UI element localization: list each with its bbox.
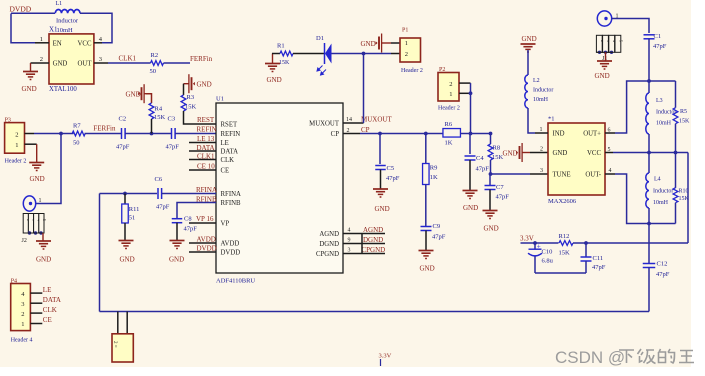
svg-text:CLK1: CLK1 xyxy=(119,55,137,63)
node TUNE junction xyxy=(489,172,493,176)
wire D1 to P1 xyxy=(332,53,392,55)
svg-text:CE: CE xyxy=(221,168,230,175)
svg-text:47pF: 47pF xyxy=(386,175,400,182)
node C11 junction xyxy=(584,241,588,245)
svg-text:OUT: OUT xyxy=(78,61,93,68)
svg-text:CPGND: CPGND xyxy=(362,246,386,254)
svg-text:1: 1 xyxy=(540,127,543,133)
svg-text:C2: C2 xyxy=(119,116,127,123)
pin 3 X1.OUT xyxy=(94,62,108,64)
svg-text:47pF: 47pF xyxy=(496,194,510,201)
node C10 junction xyxy=(533,241,537,245)
svg-text:47pF: 47pF xyxy=(592,264,606,271)
svg-text:CE: CE xyxy=(43,316,52,324)
pin 4 X1.VCC xyxy=(94,42,102,44)
svg-text:VP: VP xyxy=(221,221,230,228)
resistor R10 xyxy=(675,153,677,188)
svg-text:4: 4 xyxy=(348,228,351,234)
svg-text:Inductor: Inductor xyxy=(533,88,553,94)
svg-text:1: 1 xyxy=(40,36,43,43)
svg-text:MUXOUT: MUXOUT xyxy=(309,121,340,128)
svg-text:3: 3 xyxy=(540,168,543,174)
svg-text:L4: L4 xyxy=(654,177,661,183)
svg-text:Header 2: Header 2 xyxy=(5,158,27,164)
svg-text:4: 4 xyxy=(609,168,612,174)
svg-text:C5: C5 xyxy=(387,165,395,172)
pin 1 P4 / net CE xyxy=(30,323,42,325)
wire R8 drop xyxy=(490,134,492,145)
connector P1 body xyxy=(400,38,421,62)
resistor R8 xyxy=(488,144,493,160)
svg-text:OUT+: OUT+ xyxy=(583,131,601,138)
svg-text:CE 10: CE 10 xyxy=(197,162,215,170)
svg-text:DGND: DGND xyxy=(363,236,383,244)
svg-text:GND: GND xyxy=(420,265,435,273)
svg-text:R12: R12 xyxy=(559,233,570,240)
svg-text:C9: C9 xyxy=(433,223,441,230)
wire C8 to ground xyxy=(176,223,178,241)
wire C6 to RFINB pin wait RFINA pin xyxy=(162,193,216,195)
pin DVDD stub xyxy=(189,251,216,253)
ground C8 xyxy=(170,240,185,242)
svg-text:GND: GND xyxy=(30,175,45,183)
wire J2 riser xyxy=(36,134,62,204)
svg-text:50: 50 xyxy=(73,140,80,147)
pin 2 P1 xyxy=(391,53,400,55)
wire VCC net xyxy=(613,152,688,154)
svg-text:15K: 15K xyxy=(279,60,290,66)
wire R7 to C2 xyxy=(85,133,122,135)
svg-text:1K: 1K xyxy=(430,174,438,181)
svg-text:P1: P1 xyxy=(402,28,408,34)
wire DVDD loop top right xyxy=(80,13,112,43)
wire C7 to ground xyxy=(489,190,491,211)
resistor R1 xyxy=(280,51,293,56)
svg-text:REFIN: REFIN xyxy=(197,126,217,134)
svg-text:3.3V: 3.3V xyxy=(379,353,392,360)
pin CP stub xyxy=(343,133,360,135)
svg-text:C7: C7 xyxy=(496,184,504,191)
svg-text:R10: R10 xyxy=(679,189,689,195)
wire OUT+ net xyxy=(615,81,676,133)
wire C1 down xyxy=(648,39,650,81)
capacitor C11 xyxy=(585,243,587,257)
wire gnd to L2 xyxy=(527,50,529,75)
wire 3.3V rail xyxy=(521,242,559,244)
wire MUXOUT riser xyxy=(363,54,365,124)
wire VCC down right side xyxy=(687,153,689,244)
capacitor C12 xyxy=(643,263,656,265)
capacitor C4 xyxy=(465,155,476,157)
capacitor C3 xyxy=(171,128,173,139)
svg-text:3.3V: 3.3V xyxy=(520,235,534,243)
resistor R4 xyxy=(149,103,154,119)
wire OUT- net xyxy=(615,174,676,224)
svg-text:DATA: DATA xyxy=(43,296,61,304)
inductor L2 xyxy=(525,75,528,108)
pin 1 P2 xyxy=(459,92,471,94)
svg-text:AGND: AGND xyxy=(319,231,339,238)
wire AGND bracket xyxy=(361,234,363,254)
svg-text:Header 4: Header 4 xyxy=(11,338,33,344)
pin 1 P1 xyxy=(391,42,400,44)
wire gnd port to R4 xyxy=(146,94,152,103)
wire C9 to ground xyxy=(425,231,427,251)
wire R12 to VCC riser xyxy=(573,242,688,244)
inductor L4 xyxy=(648,153,650,174)
svg-text:47pF: 47pF xyxy=(156,204,170,211)
svg-text:47pF: 47pF xyxy=(166,144,180,151)
svg-text:50: 50 xyxy=(150,68,157,75)
svg-text:R2: R2 xyxy=(151,52,159,59)
resistor R12 xyxy=(559,241,573,246)
wire R2 to FERFin xyxy=(164,62,191,64)
ground X1 xyxy=(30,63,32,72)
svg-text:RFINB: RFINB xyxy=(221,200,241,207)
svg-text:R9: R9 xyxy=(430,165,438,172)
capacitor C5 xyxy=(375,165,386,167)
svg-text:TUNE: TUNE xyxy=(553,172,571,179)
svg-text:GND: GND xyxy=(595,72,610,80)
svg-text:LE: LE xyxy=(43,286,52,294)
wire R1 to D1 xyxy=(293,53,325,55)
node R8 top junction xyxy=(489,132,493,136)
connector J2 shield boxes xyxy=(23,214,28,234)
pin 1 U2 stub xyxy=(535,132,548,134)
ground C4 xyxy=(463,190,478,192)
svg-text:6.8u: 6.8u xyxy=(542,258,554,265)
wire C3 to REFIN pin xyxy=(175,133,216,135)
svg-text:2: 2 xyxy=(449,81,452,88)
pin 2 U2 stub xyxy=(530,152,548,154)
pin 4 P4 / net LE xyxy=(30,292,42,294)
connector J1 shield boxes xyxy=(596,35,602,52)
svg-text:2: 2 xyxy=(540,147,543,153)
svg-text:GND: GND xyxy=(484,225,499,233)
svg-text:VP 16: VP 16 xyxy=(196,215,214,223)
wire R9 drop xyxy=(425,134,427,164)
svg-text:VCC: VCC xyxy=(78,40,92,47)
svg-text:9: 9 xyxy=(348,238,351,244)
svg-text:Header 2: Header 2 xyxy=(438,106,460,112)
pin 1 X1.EN xyxy=(35,42,49,44)
svg-text:DVDD: DVDD xyxy=(197,245,217,253)
svg-text:15K: 15K xyxy=(679,119,690,125)
svg-text:C10: C10 xyxy=(542,249,553,256)
svg-text:C6: C6 xyxy=(155,176,163,183)
wire P3 to R7 xyxy=(34,133,74,135)
svg-text:LE 13: LE 13 xyxy=(197,135,215,143)
svg-text:R4: R4 xyxy=(155,106,163,113)
svg-text:C1: C1 xyxy=(654,33,662,40)
wire C12 to bottom bus xyxy=(648,268,650,312)
connector J2 circle xyxy=(23,196,35,211)
svg-text:1: 1 xyxy=(405,40,408,47)
svg-text:OUT-: OUT- xyxy=(585,172,601,179)
capacitor C8 xyxy=(172,218,183,220)
wire R6 to junction xyxy=(461,133,491,135)
pin CE stub xyxy=(189,169,216,171)
node R6 junction xyxy=(469,132,473,136)
svg-text:2: 2 xyxy=(347,128,350,134)
svg-text:15K: 15K xyxy=(154,114,166,121)
node J1 shield junctions xyxy=(598,51,601,54)
pin CPGND stub xyxy=(343,253,385,255)
svg-text:CSDN @: CSDN @ xyxy=(555,348,625,367)
ground C7 xyxy=(483,210,498,212)
svg-text:3: 3 xyxy=(21,301,24,308)
svg-text:MUXOUT: MUXOUT xyxy=(361,116,392,124)
pin 1 P3 xyxy=(25,143,37,145)
svg-text:1: 1 xyxy=(39,198,42,204)
svg-text:VCC: VCC xyxy=(587,150,601,157)
svg-text:1: 1 xyxy=(21,321,24,328)
resistor R2 xyxy=(151,61,164,66)
svg-text:GND: GND xyxy=(463,204,478,212)
svg-text:REFIN: REFIN xyxy=(221,131,241,138)
svg-text:CLK: CLK xyxy=(43,306,57,314)
ground J2 xyxy=(42,233,44,241)
wire C2 to C3 xyxy=(125,133,171,135)
node L4 C12 junction xyxy=(647,222,651,226)
wire RFINA riser to bottom bus xyxy=(99,194,101,312)
svg-text:3: 3 xyxy=(99,56,102,63)
svg-text:DATA: DATA xyxy=(221,149,239,156)
wire C10 C11 bottom link xyxy=(535,272,586,274)
pin 5 U2 stub xyxy=(605,152,613,154)
svg-text:5: 5 xyxy=(42,219,46,221)
capacitor C10 electrolytic xyxy=(534,243,536,249)
wire R11 drop xyxy=(124,194,126,205)
svg-text:DATA: DATA xyxy=(197,144,215,152)
svg-text:1: 1 xyxy=(449,91,452,98)
wire R4 to line xyxy=(151,119,153,134)
svg-text:L2: L2 xyxy=(533,78,540,84)
svg-text:GND: GND xyxy=(503,150,518,158)
svg-text:ADF4110BRU: ADF4110BRU xyxy=(216,278,255,285)
svg-text:GND: GND xyxy=(53,61,68,68)
svg-text:47pF: 47pF xyxy=(184,226,198,233)
svg-text:DVDD: DVDD xyxy=(221,250,241,257)
svg-text:Inductor: Inductor xyxy=(653,189,673,195)
wire C5 drop xyxy=(379,134,381,165)
wire DVDD loop top left xyxy=(11,12,55,14)
node C5 junction xyxy=(378,132,382,136)
svg-text:2: 2 xyxy=(40,56,43,63)
svg-text:2 =: 2 = xyxy=(112,341,117,348)
resistor R11 xyxy=(122,204,129,223)
svg-text:C3: C3 xyxy=(168,116,176,123)
svg-text:IND: IND xyxy=(553,131,565,138)
svg-text:GND: GND xyxy=(120,256,135,264)
node R4 junction xyxy=(150,132,154,136)
capacitor C9 xyxy=(421,226,432,228)
crystal Y1 body xyxy=(112,334,133,362)
svg-text:R11: R11 xyxy=(129,206,140,213)
wire TUNE xyxy=(491,173,531,175)
svg-text:R3: R3 xyxy=(187,94,195,101)
svg-text:R1: R1 xyxy=(277,43,285,50)
connector P2 body xyxy=(438,73,459,102)
svg-text:GND: GND xyxy=(22,85,37,93)
pin DGND stub xyxy=(343,243,385,245)
capacitor C6 xyxy=(157,188,159,199)
svg-text:3: 3 xyxy=(348,248,351,254)
svg-text:47pF: 47pF xyxy=(116,144,130,151)
svg-text:GND: GND xyxy=(375,205,390,213)
ground C9 xyxy=(419,250,434,252)
svg-text:2: 2 xyxy=(21,311,24,318)
wire RFINA left segment xyxy=(100,193,158,195)
svg-text:GND: GND xyxy=(197,81,212,89)
gnd port near R3 xyxy=(184,83,189,85)
wire CLK1 net xyxy=(108,62,151,64)
svg-text:C4: C4 xyxy=(476,155,484,162)
capacitor C7 xyxy=(485,185,496,187)
svg-text:RFINA: RFINA xyxy=(221,191,241,198)
svg-text:MAX2606: MAX2606 xyxy=(548,198,577,205)
svg-text:15K: 15K xyxy=(185,104,197,111)
svg-text:2: 2 xyxy=(405,51,408,58)
wire bottom bus xyxy=(100,311,650,313)
svg-text:Header 2: Header 2 xyxy=(401,68,423,74)
pin LE stub xyxy=(189,142,216,144)
svg-text:LE: LE xyxy=(221,140,229,147)
svg-text:47pF: 47pF xyxy=(476,166,490,173)
svg-text:15K: 15K xyxy=(679,196,690,202)
svg-text:L3: L3 xyxy=(656,98,663,104)
svg-text:C11: C11 xyxy=(593,255,604,262)
svg-text:GND: GND xyxy=(267,76,282,84)
svg-text:DVDD: DVDD xyxy=(10,5,32,14)
wire C4 drop xyxy=(469,134,471,155)
svg-text:10mH: 10mH xyxy=(57,27,74,34)
svg-text:R6: R6 xyxy=(445,121,453,128)
pin 2 P3 xyxy=(25,133,35,135)
svg-text:GND: GND xyxy=(36,256,51,264)
node FERFin junction xyxy=(59,132,63,136)
svg-text:GND: GND xyxy=(169,256,184,264)
xtal X1 body xyxy=(49,34,94,84)
node L3 VCC junction xyxy=(647,151,651,155)
svg-text:10mH: 10mH xyxy=(653,200,669,206)
svg-text:R5: R5 xyxy=(680,109,687,115)
pin 2 X1.GND xyxy=(31,62,50,64)
svg-text:DGND: DGND xyxy=(319,241,339,248)
connector P4 body xyxy=(11,284,31,331)
svg-text:FERFin: FERFin xyxy=(93,125,116,133)
vco U2 MAX2606 body xyxy=(548,123,605,195)
connector P3 body xyxy=(5,123,25,154)
svg-text:J2: J2 xyxy=(22,238,27,244)
svg-text:1: 1 xyxy=(15,142,18,149)
svg-text:FERFin: FERFin xyxy=(190,55,213,63)
svg-text:Inductor: Inductor xyxy=(56,18,79,25)
wire L2 to pin1 xyxy=(528,108,535,133)
wire R8 to TUNE junction xyxy=(490,160,492,174)
ic U1 body xyxy=(216,103,343,273)
svg-text:6: 6 xyxy=(608,128,611,134)
svg-text:AGND: AGND xyxy=(363,226,383,234)
node MUXOUT junction xyxy=(362,52,366,56)
ground C5 xyxy=(373,188,388,190)
svg-text:X1: X1 xyxy=(49,26,58,34)
pin 3 U2 stub xyxy=(530,173,548,175)
svg-text:RSET: RSET xyxy=(221,122,238,129)
svg-text:2: 2 xyxy=(15,132,18,139)
ground P3 xyxy=(36,144,38,162)
wire C5 to ground xyxy=(380,170,382,190)
svg-text:U1: U1 xyxy=(216,96,224,103)
svg-text:R8: R8 xyxy=(493,145,501,152)
svg-text:47pF: 47pF xyxy=(432,234,446,241)
wire P2 riser xyxy=(470,83,472,133)
svg-text:47pF: 47pF xyxy=(653,43,667,50)
wire C4 to ground xyxy=(469,160,471,191)
capacitor C1 xyxy=(644,34,655,36)
resistor R7 xyxy=(72,131,85,136)
node J2 shield junctions xyxy=(28,231,31,234)
svg-text:1K: 1K xyxy=(445,140,453,147)
svg-text:10mH: 10mH xyxy=(656,121,672,127)
wire R3 to RSET pin xyxy=(184,111,217,124)
wire C7 drop xyxy=(489,174,491,186)
pin AGND stub xyxy=(343,233,385,235)
node C1 L3 junction xyxy=(647,79,651,83)
pin 4 U2 stub xyxy=(605,173,615,175)
svg-text:15K: 15K xyxy=(559,250,571,257)
crystal Y1 pin wires xyxy=(117,312,119,334)
pin 2 P2 xyxy=(459,82,471,84)
pin DATA stub xyxy=(189,150,216,152)
wire CP net xyxy=(360,133,443,135)
svg-text:CPGND: CPGND xyxy=(316,251,339,258)
node R5 R10 junction xyxy=(674,151,678,155)
node R9 junction xyxy=(424,132,428,136)
wire L4 to C12 xyxy=(648,224,650,264)
wire DVDD loop left xyxy=(11,14,35,43)
svg-text:GND: GND xyxy=(553,150,568,157)
svg-text:REST: REST xyxy=(197,116,215,124)
pin 6 U2 stub xyxy=(605,132,615,134)
svg-text:C8: C8 xyxy=(184,216,192,223)
wire J1 to C1 xyxy=(612,19,649,34)
node P2 junction xyxy=(469,91,473,95)
pin AVDD stub xyxy=(189,242,216,244)
ground R1 xyxy=(272,54,274,64)
svg-text:5: 5 xyxy=(608,147,611,153)
pin VP stub xyxy=(189,222,216,224)
svg-text:XTAL100: XTAL100 xyxy=(49,86,77,93)
pin 3 P4 / net DATA xyxy=(30,302,42,304)
svg-text:10mH: 10mH xyxy=(533,97,549,103)
wire gnd to R1 xyxy=(272,53,280,55)
inductor L1 xyxy=(55,9,80,13)
svg-text:EN: EN xyxy=(53,40,62,47)
svg-text:GND: GND xyxy=(361,40,376,48)
svg-text:CLK1: CLK1 xyxy=(197,152,215,160)
ground R11 xyxy=(119,240,134,242)
ground J1 xyxy=(605,52,607,61)
svg-text:L1: L1 xyxy=(56,1,63,7)
resistor R6 xyxy=(443,129,461,138)
wire R11 to ground xyxy=(124,223,126,241)
inductor L3 xyxy=(648,81,650,93)
resistor R3 xyxy=(181,95,186,111)
svg-text:51: 51 xyxy=(129,215,136,222)
svg-text:AVDD: AVDD xyxy=(221,241,240,248)
wire R9 to C9 xyxy=(425,185,427,227)
